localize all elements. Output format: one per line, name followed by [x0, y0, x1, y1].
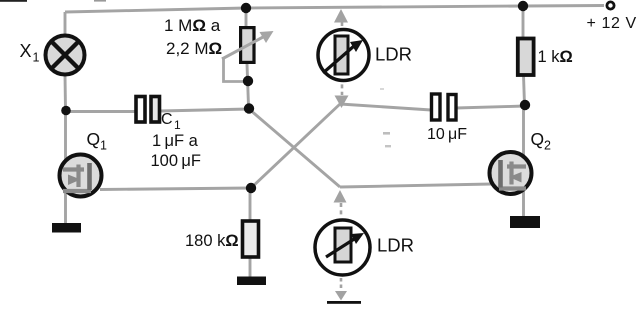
ground line LDR2: [327, 301, 361, 304]
svg-text:180 kΩ: 180 kΩ: [185, 232, 239, 250]
LDR1 dashed placement line upper with up arrow: [334, 9, 348, 34]
svg-text:+ 12 V: + 12 V: [587, 15, 637, 32]
capacitor C1 plates: [136, 97, 160, 123]
wire diagonal node C to upper junction: [251, 104, 340, 188]
LDR2 dashed placement line upper with up arrow: [334, 190, 347, 216]
node top rail / potentiometer: [241, 3, 251, 13]
svg-text:2: 2: [544, 139, 551, 153]
wire potentiometer top lead: [245, 8, 248, 27]
label 180 kOhm: [185, 232, 239, 250]
wire node A to C1 left plate: [66, 110, 135, 113]
label X1: [20, 41, 40, 65]
svg-text:X: X: [20, 41, 32, 61]
LDR1 (upper): [318, 30, 369, 81]
node B: [244, 103, 254, 113]
label 1 kOhm: [538, 48, 573, 66]
wire 180k top lead: [249, 192, 252, 221]
lamp X1: [46, 36, 85, 75]
node potentiometer wiper: [243, 76, 253, 86]
label Q1: [87, 129, 108, 153]
LDR2 (lower): [315, 220, 370, 275]
wire lamp top lead: [64, 12, 67, 35]
transistor Q2: [490, 152, 532, 194]
label +12V: [587, 15, 637, 32]
svg-text:Q: Q: [87, 129, 101, 149]
potentiometer R1 wiper arrow: [222, 31, 274, 59]
wire potentiometer wiper return: [224, 57, 245, 82]
wire top supply rail: [65, 6, 604, 13]
svg-text:C: C: [161, 111, 173, 128]
svg-text:Q: Q: [531, 129, 545, 149]
node top rail / 1k: [518, 1, 528, 11]
svg-text:1 kΩ: 1 kΩ: [538, 48, 573, 66]
label LDR upper: [375, 44, 412, 65]
potentiometer R1 body: [241, 28, 254, 63]
transistor Q1: [60, 155, 102, 197]
svg-text:1: 1: [174, 118, 181, 132]
node A lamp-C1: [61, 106, 71, 116]
label C1: [161, 111, 181, 132]
ground Q2: [510, 216, 540, 228]
capacitor C2 10uF plates: [432, 94, 457, 120]
resistor 180k body: [243, 221, 259, 257]
label Q2: [531, 129, 552, 153]
wire Q2 drain-source vertical through transistor to ground: [522, 105, 525, 217]
svg-text:LDR: LDR: [377, 235, 414, 256]
svg-text:10 μF: 10 μF: [427, 126, 467, 143]
svg-text:LDR: LDR: [375, 44, 412, 65]
svg-text:1 MΩ a: 1 MΩ a: [164, 16, 221, 35]
svg-text:1 μF a: 1 μF a: [152, 132, 199, 150]
svg-text:1: 1: [100, 139, 107, 153]
wire 180k bottom lead: [249, 257, 252, 277]
ground 180k: [237, 277, 266, 286]
wire Q1 drain-source vertical through transistor to ground: [64, 110, 67, 224]
svg-text:1: 1: [33, 51, 40, 65]
scan artifact top-left edge line: [0, 0, 106, 2]
label 1 MOhm a 2,2 MOhm: [164, 16, 222, 58]
label 10uF: [427, 126, 467, 143]
label 1uF a 100uF: [151, 132, 201, 170]
wire potentiometer bottom lead through wiper node to node B: [247, 64, 249, 106]
terminal +12V: [607, 2, 614, 9]
resistor 1k body: [518, 39, 534, 76]
wire lamp bottom to node A: [64, 75, 67, 110]
wire lower junction to Q2 gate: [340, 184, 492, 187]
svg-text:2,2 MΩ: 2,2 MΩ: [166, 39, 222, 58]
wire 1k resistor bottom lead to node D: [524, 75, 525, 105]
scan artifact specks: [380, 88, 391, 147]
wire 10uF right plate to node D: [456, 106, 525, 108]
wire diagonal node B to Q2 gate junction: [249, 109, 340, 187]
svg-text:100 μF: 100 μF: [151, 152, 201, 170]
node C: [246, 183, 256, 193]
wire 1k resistor top lead: [522, 6, 525, 38]
wire Q1 gate to node C: [100, 188, 251, 190]
wire C1 right plate to node B: [160, 109, 249, 111]
LDR1 dashed placement line lower with down arrow: [335, 77, 349, 108]
wire upper junction to 10uF left plate: [340, 104, 431, 110]
ground Q1: [52, 223, 81, 233]
label LDR lower: [377, 235, 414, 256]
LDR2 dashed placement line lower with down arrow: [335, 278, 347, 301]
node D: [520, 100, 530, 110]
